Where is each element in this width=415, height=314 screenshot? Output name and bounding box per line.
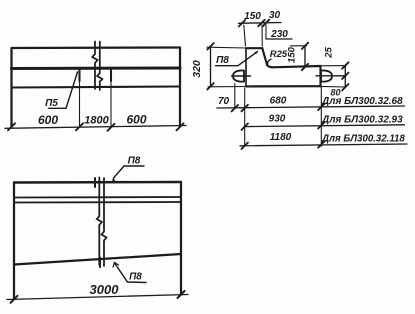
svg-text:3000: 3000: [90, 282, 120, 297]
extension lines top dims: [244, 25, 266, 46]
svg-text:600: 600: [38, 113, 58, 127]
left hook loop: [232, 70, 251, 81]
break line A figure 2: [97, 178, 102, 266]
wire top edge: [12, 46, 181, 49]
svg-text:1800: 1800: [84, 115, 109, 127]
tick mark on top edge figure 2: [94, 178, 96, 187]
svg-text:230: 230: [270, 29, 288, 40]
svg-text:30: 30: [269, 10, 281, 21]
label П5 with leader: [49, 72, 78, 108]
figure 2: slab plan bottom-left: [14, 182, 181, 299]
svg-text:680: 680: [270, 96, 287, 107]
dimension line 3000: [7, 295, 188, 300]
svg-text:600: 600: [126, 113, 146, 127]
dimension line 150 / 30: [239, 22, 282, 25]
svg-text:150: 150: [287, 46, 298, 63]
break line B figure 1: [97, 42, 102, 91]
label П8 bottom leader figure 2: [113, 263, 146, 283]
wire right edge: [180, 182, 182, 295]
svg-text:П5: П5: [45, 98, 58, 109]
wire mid thick line: [12, 67, 181, 71]
row slash ticks: [232, 104, 325, 149]
node stub left figure 1: [78, 70, 80, 81]
svg-text:25: 25: [324, 47, 335, 59]
row extension verticals: [235, 84, 321, 147]
wire right edge: [179, 48, 181, 127]
dimension 230 underline: [266, 38, 292, 40]
wire section right edge: [319, 66, 321, 86]
right hook loop: [316, 70, 346, 81]
svg-text:320: 320: [191, 60, 203, 78]
bottom edge extensions: [208, 86, 246, 88]
svg-text:1180: 1180: [270, 132, 292, 143]
vertical dim 25 / 80 right side: [342, 62, 348, 90]
figure 3: cross-section top-right: [246, 48, 321, 86]
wire sloped bottom line: [14, 254, 181, 265]
svg-text:Для БЛ300.32.93: Для БЛ300.32.93: [321, 115, 403, 126]
tick mark on bottom line figure 2: [99, 258, 101, 268]
wire lower line: [12, 87, 181, 88]
vertical dim 150 (notch depth): [291, 43, 309, 71]
svg-text:Для БЛ300.32.68: Для БЛ300.32.68: [321, 96, 403, 107]
svg-text:930: 930: [269, 114, 286, 125]
break line A figure 1: [92, 42, 97, 90]
svg-text:R25: R25: [270, 49, 288, 60]
wire double line 2: [14, 201, 181, 204]
wire section step and fillet: [262, 48, 272, 67]
svg-text:150: 150: [244, 11, 261, 22]
label П8 leader figure 3: [216, 52, 258, 66]
wire top edge: [14, 181, 181, 184]
wire double line 1: [14, 196, 181, 199]
wire section bottom: [246, 85, 321, 87]
dimension line 600 1800 600: [5, 126, 186, 129]
wire section left edge: [245, 48, 247, 86]
figure 1: slab elevation top-left: [12, 48, 181, 127]
wire section top lip: [246, 47, 262, 49]
svg-text:70: 70: [218, 96, 230, 107]
svg-text:Для БЛ300.32.118: Для БЛ300.32.118: [321, 134, 405, 145]
dimension rows 680 930 1180: [217, 106, 407, 146]
svg-text:П8: П8: [129, 272, 142, 283]
break line B figure 2: [102, 178, 107, 266]
wire section lower top surface: [272, 66, 321, 67]
wire left edge: [13, 183, 15, 300]
vertical dim 320: [207, 43, 246, 89]
node stub right figure 1: [110, 70, 112, 81]
svg-text:П8: П8: [216, 55, 229, 66]
wire left edge: [10, 48, 12, 127]
label П8 top leader figure 2: [112, 166, 144, 183]
label R25 leader: [267, 59, 271, 66]
top surface extension right: [321, 65, 347, 67]
svg-text:П8: П8: [128, 156, 141, 167]
